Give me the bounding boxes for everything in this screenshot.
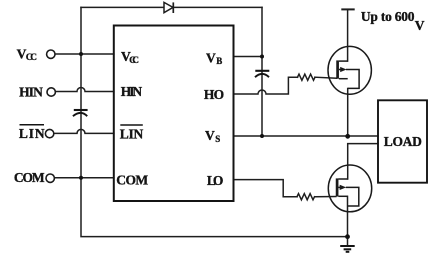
svg-text:LIN: LIN [120, 127, 144, 142]
svg-text:LO: LO [207, 173, 224, 188]
svg-text:B: B [216, 56, 222, 66]
svg-text:COM: COM [116, 172, 148, 187]
svg-text:V: V [206, 51, 216, 66]
svg-text:LOAD: LOAD [384, 134, 422, 149]
svg-text:CC: CC [26, 52, 37, 62]
svg-text:LIN: LIN [19, 126, 45, 141]
svg-text:CC: CC [129, 55, 139, 65]
svg-text:HIN: HIN [121, 84, 143, 99]
svg-text:S: S [215, 134, 220, 144]
svg-text:V: V [205, 128, 215, 143]
svg-text:Up to 600: Up to 600 [361, 9, 415, 24]
svg-text:HIN: HIN [19, 84, 43, 99]
svg-text:HO: HO [204, 87, 224, 102]
svg-text:V: V [415, 18, 425, 33]
svg-text:COM: COM [14, 170, 45, 185]
